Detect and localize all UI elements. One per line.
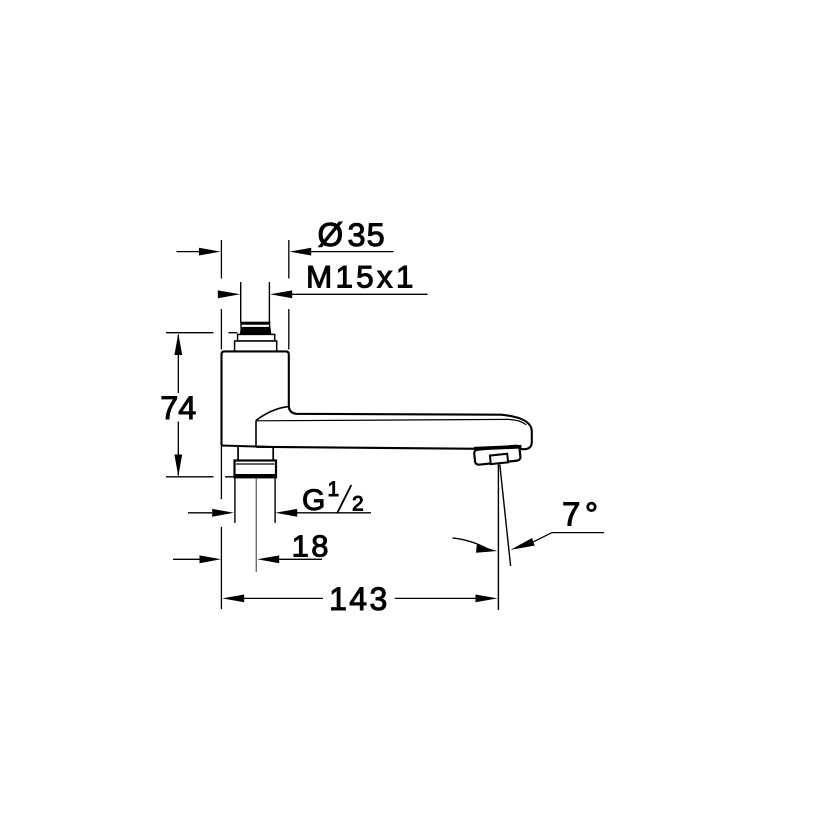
svg-text:2: 2 — [352, 493, 364, 516]
svg-text:74: 74 — [160, 390, 196, 426]
svg-text:35: 35 — [348, 217, 386, 253]
svg-text:Ø: Ø — [318, 216, 344, 253]
svg-text:18: 18 — [292, 528, 331, 563]
svg-text:1: 1 — [328, 478, 340, 501]
svg-text:M15x1: M15x1 — [306, 259, 417, 295]
svg-text:143: 143 — [329, 581, 390, 617]
svg-text:7°: 7° — [562, 496, 603, 533]
svg-text:G: G — [302, 484, 325, 517]
